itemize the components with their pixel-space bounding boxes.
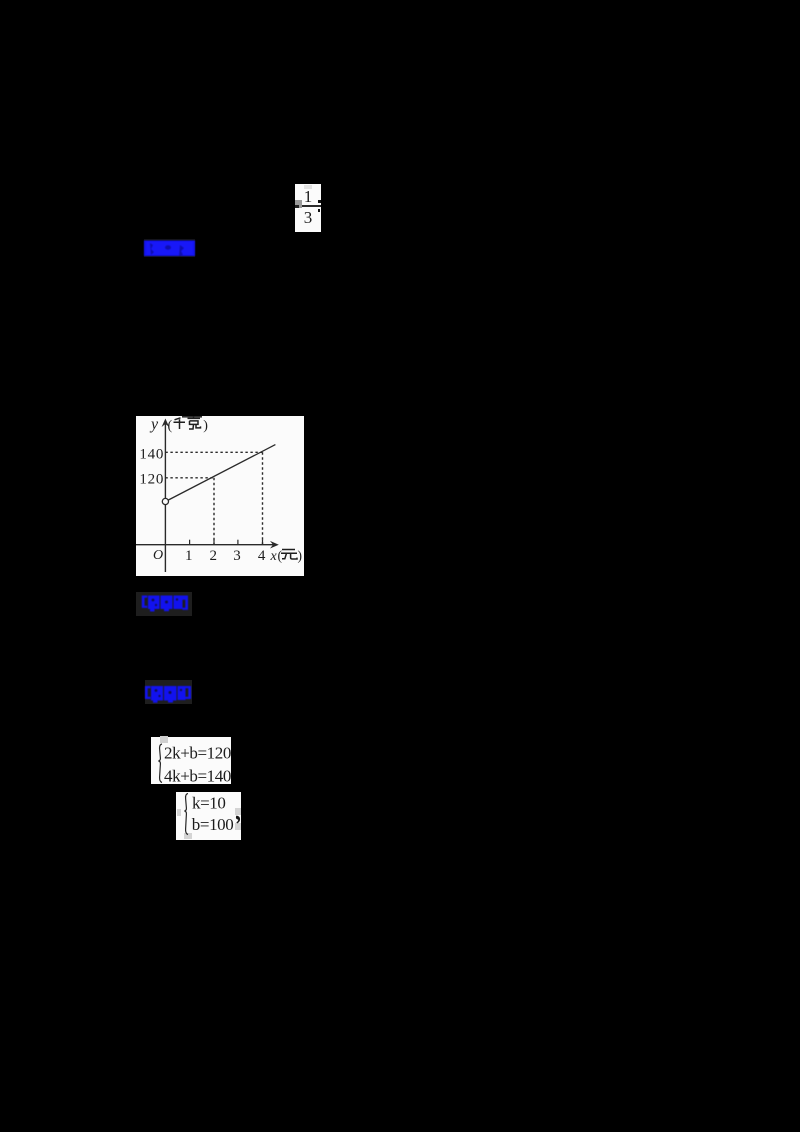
ke	[188, 416, 201, 429]
blue label 3 (jieda)	[145, 680, 193, 705]
brace	[184, 793, 188, 834]
x ticks	[190, 540, 263, 545]
svg-text:): )	[298, 548, 303, 563]
gray square artifact	[295, 200, 302, 208]
brace	[158, 744, 162, 783]
numerator 1	[295, 188, 321, 205]
dashed line y=120	[165, 477, 214, 479]
dark tick right lower	[318, 209, 320, 212]
dark tick right upper	[318, 200, 321, 203]
svg-text:1: 1	[185, 548, 193, 564]
svg-text:4k+b=140: 4k+b=140	[164, 766, 231, 784]
dark tick left	[295, 205, 299, 208]
scan smear at top edge	[182, 416, 202, 418]
gray artifacts	[177, 809, 181, 816]
graph image (function plot)	[136, 416, 304, 576]
x axis	[136, 544, 276, 546]
dashed vertical x=4	[262, 452, 264, 544]
tick labels 1 2 3 4	[185, 548, 266, 564]
comma	[235, 815, 239, 823]
svg-text:y: y	[149, 416, 159, 433]
equation system 1: 2k+b=120 / 4k+b=140	[151, 737, 231, 785]
qian	[174, 418, 186, 429]
svg-text:(: (	[168, 419, 173, 434]
svg-text:x: x	[270, 549, 278, 564]
yuan	[281, 550, 297, 560]
light smudge top	[304, 185, 312, 189]
svg-text:3: 3	[233, 548, 241, 564]
fraction 1/3 (inline formula image)	[295, 184, 321, 232]
gray square artifact top	[160, 736, 168, 743]
main line	[168, 445, 275, 500]
open circle at start	[162, 498, 168, 504]
dashed vertical x=2	[213, 478, 215, 545]
blue label 2 (fenxi)	[136, 592, 192, 616]
svg-text:): )	[203, 419, 208, 434]
svg-text:O: O	[153, 548, 163, 563]
svg-text:2: 2	[210, 548, 218, 564]
svg-text:k=10: k=10	[192, 793, 226, 812]
svg-text:4: 4	[258, 548, 266, 564]
svg-text:2k+b=120: 2k+b=120	[164, 743, 231, 762]
dashed line y=140	[165, 451, 262, 453]
svg-text:120: 120	[139, 472, 163, 488]
equation system 2: k=10 / b=100	[176, 792, 242, 841]
y axis	[164, 421, 166, 572]
svg-text:140: 140	[139, 447, 163, 463]
svg-text:b=100: b=100	[191, 815, 233, 834]
svg-text:(: (	[278, 548, 283, 563]
fraction bar	[297, 205, 321, 207]
denominator 3	[295, 209, 321, 226]
blue label 1 (dianping) : solid blue blob	[144, 239, 195, 257]
